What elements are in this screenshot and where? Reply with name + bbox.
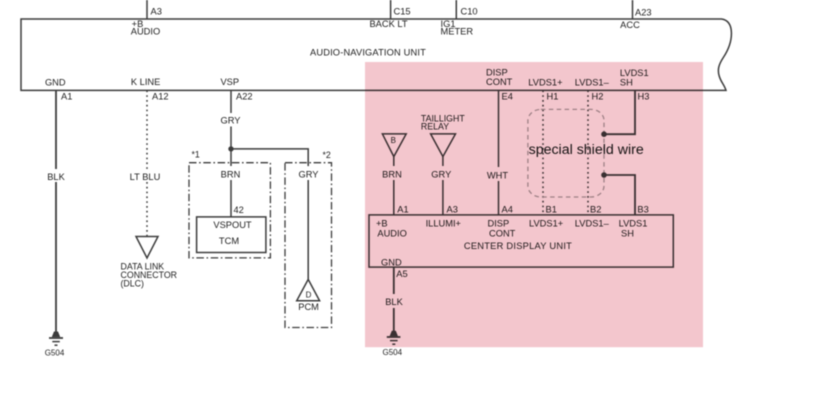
wire color label BLK <box>47 172 65 182</box>
svg-text:D: D <box>306 291 312 300</box>
ground G504 right <box>387 331 401 344</box>
pin number A3 (CDU) <box>447 204 458 214</box>
pin label K LINE <box>131 77 160 87</box>
svg-text:GRY: GRY <box>299 169 319 179</box>
wire LVDS1 SH H3 to shield <box>604 90 635 134</box>
dash-dot box *1 <box>189 163 270 258</box>
connector letter D <box>306 291 312 300</box>
svg-text:*2: *2 <box>323 150 331 160</box>
wire GND BLK (CDU) <box>393 267 395 332</box>
wire color label BLK (CDU) <box>385 297 403 307</box>
audio-navigation unit box outline <box>21 19 731 90</box>
pink highlight overlay <box>365 62 703 347</box>
svg-text:G504: G504 <box>45 348 65 357</box>
wire BRN to TCM <box>230 149 232 217</box>
wire pin C10 top stub <box>455 0 457 19</box>
svg-text:A23: A23 <box>635 7 652 17</box>
pin number B3 <box>637 204 648 214</box>
pin number B1 <box>546 204 557 214</box>
svg-text:ACC: ACC <box>620 20 640 30</box>
pin label +B AUDIO (CDU) <box>376 218 407 238</box>
wire GRY to PCM <box>307 166 309 279</box>
svg-text:METER: METER <box>441 27 474 37</box>
svg-text:TCM: TCM <box>219 236 239 246</box>
pin label LVDS1 SH (nav) <box>620 68 649 88</box>
pin number A12 <box>152 91 169 101</box>
node shield bottom <box>601 172 607 178</box>
wire BRN to CDU A1 <box>393 157 395 215</box>
pin number H1 <box>547 91 559 101</box>
svg-text:GND: GND <box>45 78 66 88</box>
pin label LVDS1 SH (CDU) <box>619 218 648 238</box>
pin label GND <box>45 78 66 88</box>
wire color label BRN <box>218 167 244 179</box>
connector triangle B (BRN) <box>382 134 406 157</box>
pin number A23 <box>635 7 652 17</box>
ground name G504 <box>45 348 65 357</box>
center display unit box <box>369 215 673 267</box>
wire color label BRN (CDU) <box>382 169 402 179</box>
connector triangle DLC <box>136 237 158 259</box>
svg-text:(DLC): (DLC) <box>121 278 145 288</box>
svg-text:C15: C15 <box>394 6 411 16</box>
note *1 <box>192 150 200 160</box>
pin label ACC <box>620 20 640 30</box>
pin number A3 <box>151 6 162 16</box>
pin number 42 <box>234 205 244 215</box>
pin label LVDS1- (CDU) <box>575 218 610 228</box>
label TAILLIGHT RELAY <box>421 113 465 131</box>
wire LVDS1+ dotted H1 to B1 <box>542 90 544 214</box>
label TCM <box>219 236 239 246</box>
pin number C10 <box>461 6 478 16</box>
wire pin A3 top stub <box>146 0 148 19</box>
pin number A5 <box>396 269 407 279</box>
wire color label WHT <box>487 171 508 181</box>
annotation special shield wire <box>529 142 644 158</box>
wire GND BLK <box>55 90 57 333</box>
wire WHT E4 to A4 <box>498 90 500 214</box>
pin label LVDS1+ (CDU) <box>529 218 563 228</box>
pin label IG1 METER <box>441 19 474 37</box>
label PCM <box>298 302 319 312</box>
label CENTER DISPLAY UNIT <box>464 241 572 251</box>
node junction VSP split <box>228 146 233 151</box>
svg-text:AUDIO: AUDIO <box>131 27 160 37</box>
svg-text:A12: A12 <box>152 91 169 101</box>
pin number A1 (CDU) <box>397 204 408 214</box>
svg-text:G504: G504 <box>383 348 403 357</box>
wire color label GRY <box>221 116 241 126</box>
shield cylinder (special shield wire) <box>528 109 604 197</box>
pin label LVDS1- (nav) <box>575 78 610 88</box>
wire branch to PCM <box>231 149 308 166</box>
svg-text:*1: *1 <box>192 150 200 160</box>
svg-text:A3: A3 <box>151 6 162 16</box>
wire pin A23 top stub <box>632 0 634 19</box>
svg-text:VSP: VSP <box>220 77 239 87</box>
svg-text:C10: C10 <box>461 6 478 16</box>
pin number A4 (CDU) <box>502 204 513 214</box>
pin label ILLUMI+ <box>426 218 461 228</box>
svg-text:AUDIO-NAVIGATION UNIT: AUDIO-NAVIGATION UNIT <box>310 48 426 58</box>
pin number H2 <box>592 91 604 101</box>
svg-text:GRY: GRY <box>221 116 241 126</box>
svg-text:K LINE: K LINE <box>131 77 160 87</box>
wire shield to B3 <box>604 175 635 215</box>
svg-text:VSPOUT: VSPOUT <box>213 220 252 230</box>
svg-text:BACK LT: BACK LT <box>369 19 407 29</box>
ground G504 left <box>49 332 63 346</box>
pin label VSP <box>220 77 239 87</box>
ground name G504 right <box>383 348 403 357</box>
label DATA LINK CONNECTOR (DLC) <box>121 261 178 288</box>
pin label DISP CONT (CDU) <box>488 218 516 238</box>
svg-text:42: 42 <box>234 205 244 215</box>
label AUDIO-NAVIGATION UNIT <box>310 48 426 58</box>
pin number H3 <box>638 91 650 101</box>
svg-text:PCM: PCM <box>298 302 319 312</box>
pin label BACK LT <box>369 19 407 29</box>
svg-text:BRN: BRN <box>221 169 241 179</box>
pin label LVDS1+ (nav) <box>528 78 562 88</box>
node shield top <box>601 131 607 137</box>
box TCM (VSPOUT) <box>197 217 266 253</box>
connector letter B <box>391 136 396 145</box>
wire color label GRY (CDU) <box>431 169 451 179</box>
svg-text:BLK: BLK <box>47 172 65 182</box>
pin number C15 <box>394 6 411 16</box>
wire VSP GRY <box>230 90 232 148</box>
pin label +B AUDIO <box>131 19 160 37</box>
wire K LINE LT BLU dotted <box>146 90 148 236</box>
wire color label GRY (PCM) <box>295 167 322 179</box>
svg-text:A22: A22 <box>236 91 253 101</box>
note *2 <box>323 150 331 160</box>
pin number B2 <box>590 204 601 214</box>
pin label GND (CDU) <box>381 258 402 268</box>
dash-dot box *2 <box>285 163 332 328</box>
connector triangle taillight relay <box>431 134 456 157</box>
wire GRY to CDU A3 <box>442 157 444 215</box>
wire LVDS1- dotted H2 to B2 <box>587 90 589 214</box>
wire pin C15 top stub <box>390 0 392 19</box>
svg-text:LT BLU: LT BLU <box>130 172 161 182</box>
connector triangle D PCM <box>297 279 320 300</box>
pin number A22 <box>236 91 253 101</box>
pin label DISP CONT (nav) <box>486 68 513 87</box>
svg-text:A1: A1 <box>61 91 72 101</box>
pin number E4 <box>502 91 513 101</box>
wire color label LT BLU <box>130 172 161 182</box>
pin number A1 <box>61 91 72 101</box>
label VSPOUT <box>213 220 252 230</box>
